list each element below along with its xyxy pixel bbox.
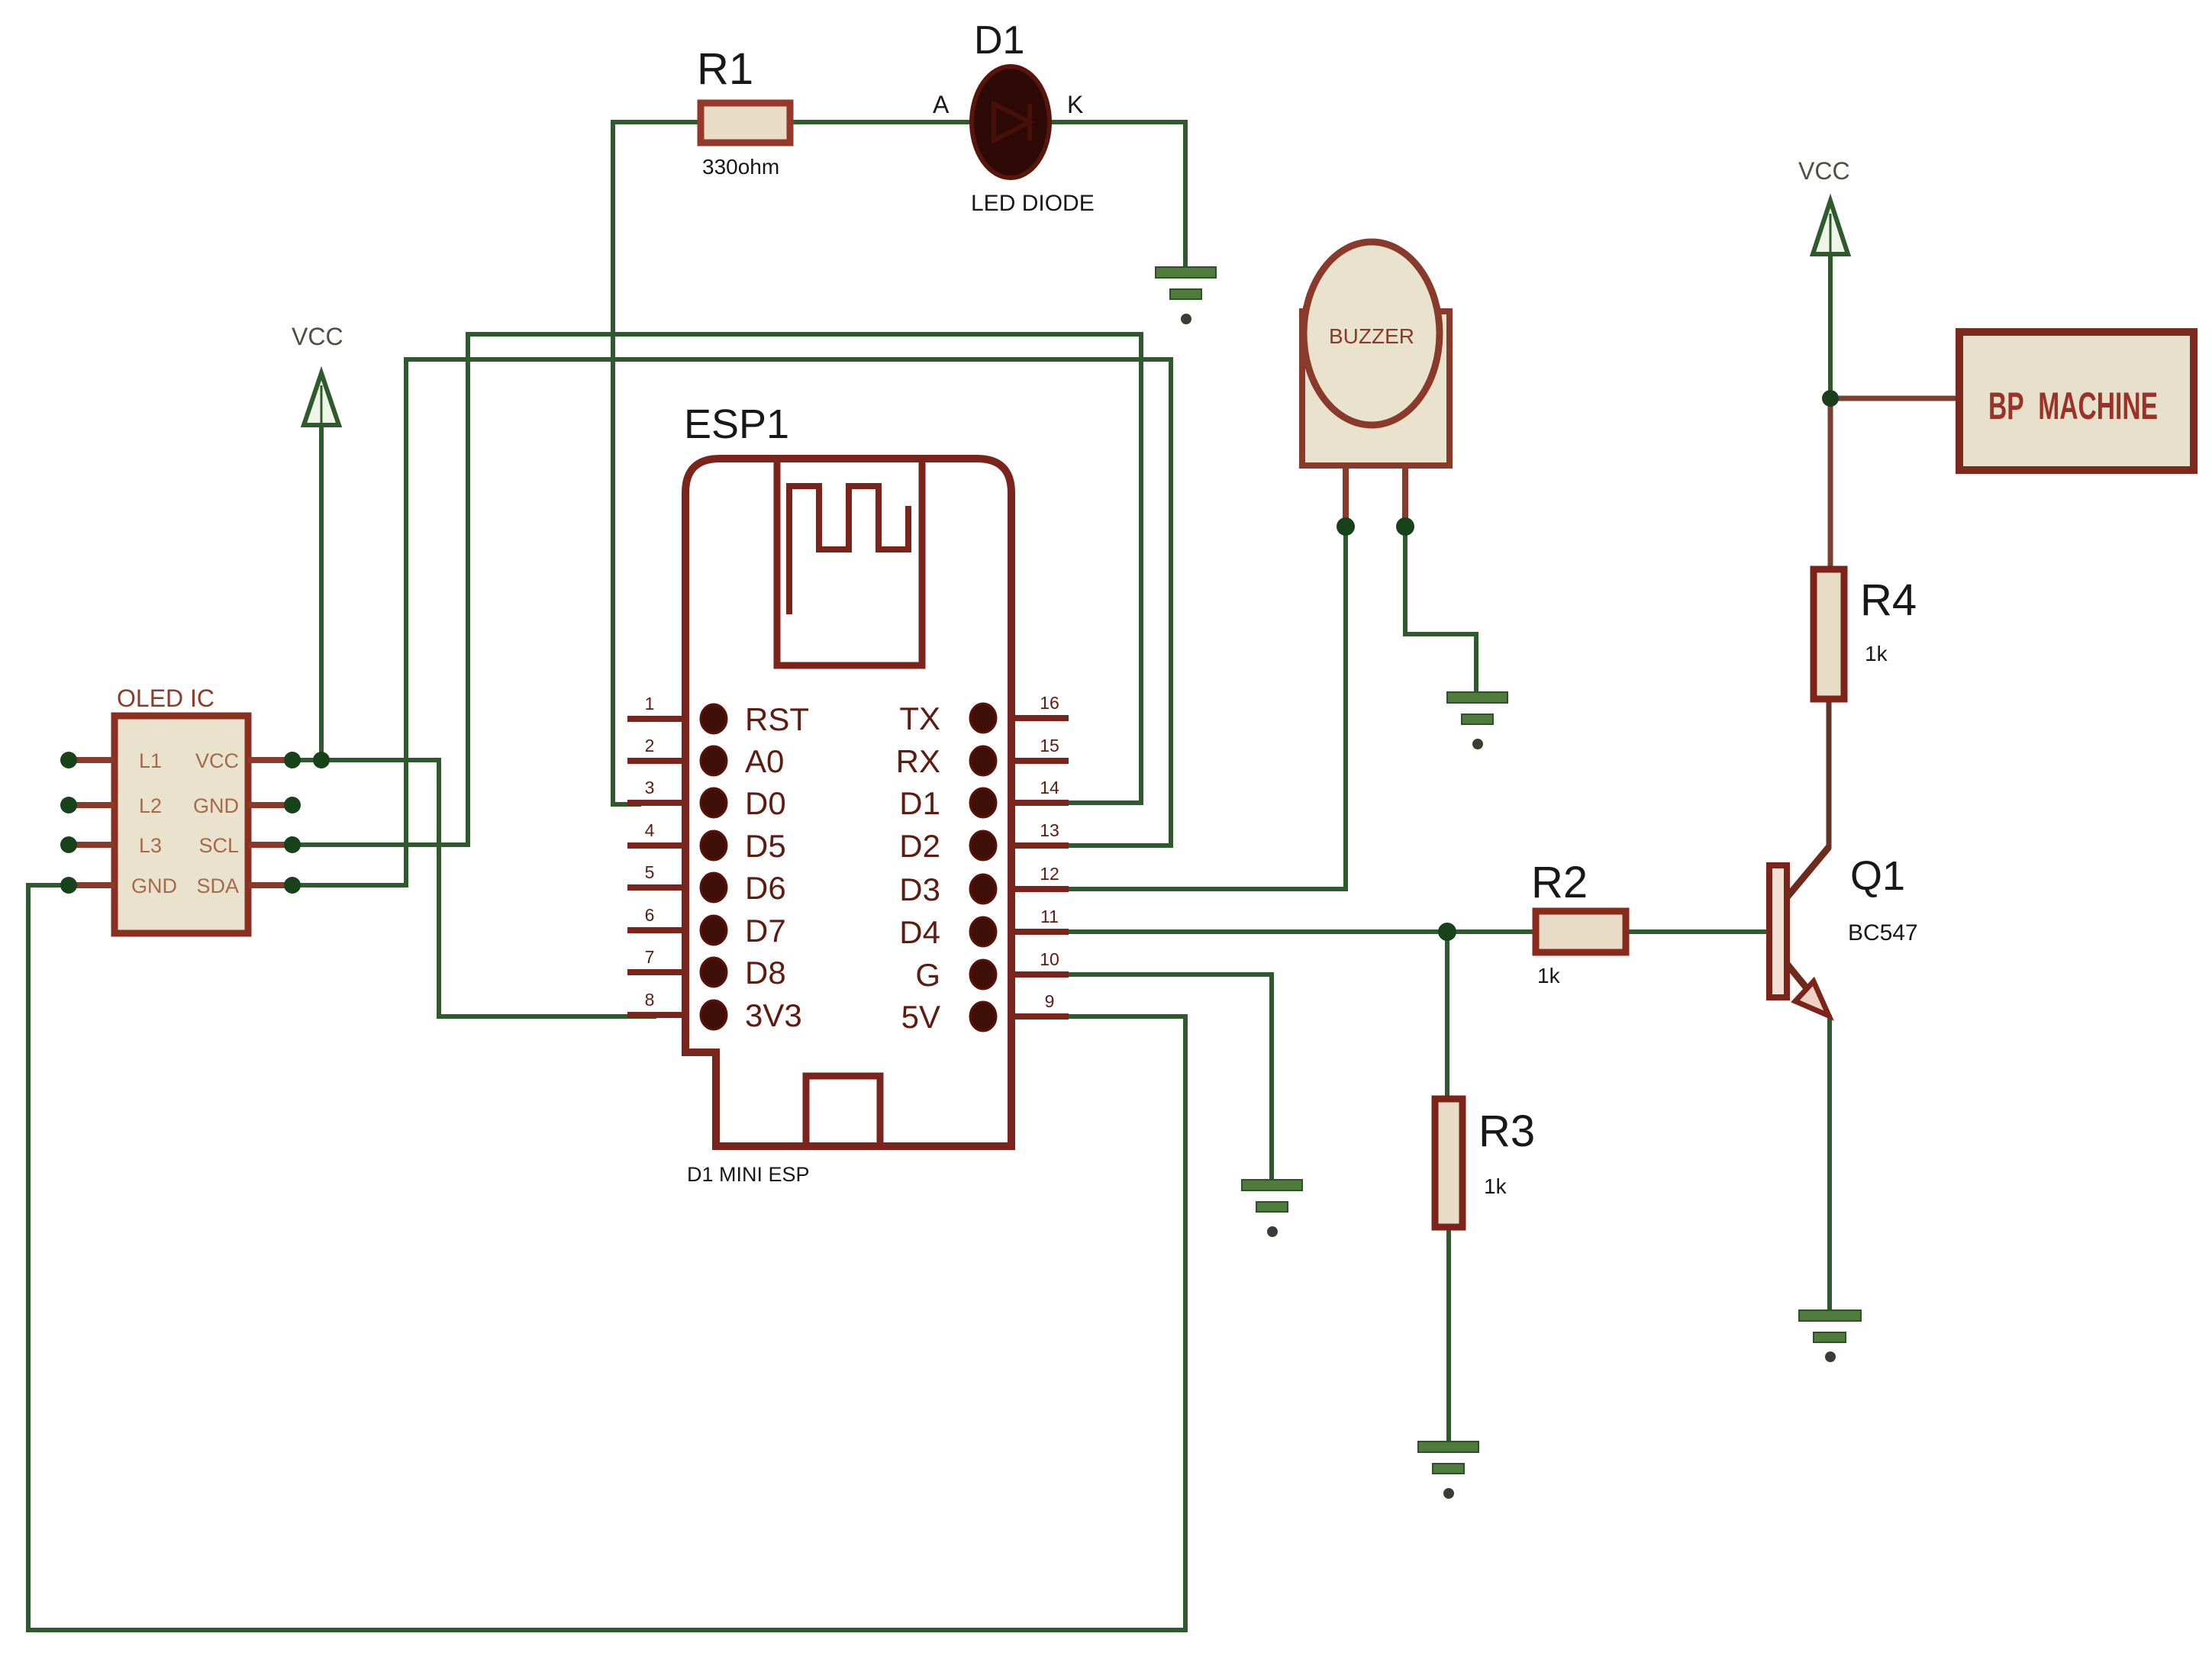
svg-text:4: 4 xyxy=(645,820,655,840)
wire VCC junction to BP MACHINE (brown) xyxy=(1830,396,1962,401)
wire R1 to LED anode xyxy=(790,120,974,124)
svg-text:D4: D4 xyxy=(899,914,940,950)
wire net D0 to R1 xyxy=(613,122,701,804)
wire VCC arrow stem xyxy=(319,424,324,760)
resistor R1 xyxy=(697,44,790,179)
svg-text:RST: RST xyxy=(745,701,809,737)
pin numbers 1-8 and 16-9 xyxy=(645,693,1059,1011)
svg-text:SDA: SDA xyxy=(196,875,239,897)
svg-text:5V: 5V xyxy=(901,999,940,1035)
transistor Q1 xyxy=(1769,847,1918,1016)
svg-text:A0: A0 xyxy=(745,743,784,779)
notch bottom xyxy=(806,1076,880,1146)
svg-text:D0: D0 xyxy=(745,785,786,821)
wire buzzer right pin to ground xyxy=(1405,488,1476,694)
junction dot VCC node xyxy=(313,752,330,768)
junction dot buzzer left pin xyxy=(1337,517,1355,536)
pin stubs left xyxy=(627,718,1069,1016)
svg-text:OLED IC: OLED IC xyxy=(117,685,214,712)
svg-text:BUZZER: BUZZER xyxy=(1329,324,1414,348)
resistor R2 xyxy=(1531,858,1626,987)
antenna box xyxy=(777,459,922,665)
svg-text:1k: 1k xyxy=(1865,642,1888,665)
svg-text:16: 16 xyxy=(1040,693,1059,713)
ESP1 module xyxy=(627,401,1069,1186)
svg-text:L3: L3 xyxy=(139,834,162,857)
junction dot buzzer right pin xyxy=(1396,517,1414,536)
svg-text:L1: L1 xyxy=(139,749,162,772)
buzzer BZ1 xyxy=(1302,242,1449,525)
junction dot D4/R2/R3 node xyxy=(1438,923,1456,941)
svg-text:GND: GND xyxy=(193,794,239,817)
svg-text:D2: D2 xyxy=(899,828,940,864)
wire R3 to ground xyxy=(1446,1227,1451,1443)
wire R4 to Q1 collector (dark red) xyxy=(1827,699,1832,849)
svg-text:Q1: Q1 xyxy=(1850,853,1905,899)
resistor R4 xyxy=(1814,569,1917,699)
wire VCC junction down to R4 (brown) xyxy=(1828,398,1833,569)
pin name labels xyxy=(745,701,940,1035)
svg-text:7: 7 xyxy=(645,947,655,967)
ground (buzzer) xyxy=(1447,692,1507,749)
svg-text:5: 5 xyxy=(645,862,655,882)
svg-text:D8: D8 xyxy=(745,955,786,991)
svg-text:R3: R3 xyxy=(1478,1107,1535,1156)
svg-text:D1: D1 xyxy=(974,18,1024,63)
svg-text:D1: D1 xyxy=(899,785,940,821)
wire R2 to Q1 base xyxy=(1626,929,1771,934)
pin circles xyxy=(701,704,996,1031)
svg-text:SCL: SCL xyxy=(198,834,239,857)
junction dots OLED pins xyxy=(60,752,301,894)
wire net D3 to buzzer left pin xyxy=(1061,488,1346,889)
BP MACHINE block xyxy=(1959,332,2194,470)
svg-text:RX: RX xyxy=(896,743,940,779)
svg-text:9: 9 xyxy=(1045,991,1055,1011)
svg-text:VCC: VCC xyxy=(292,323,343,350)
wire VCC2 arrow stem xyxy=(1828,254,1833,398)
svg-text:330ohm: 330ohm xyxy=(702,155,779,179)
wire net SCL: OLED SCL to ESP D1 xyxy=(292,334,1141,845)
svg-text:GND: GND xyxy=(131,875,177,897)
svg-text:D6: D6 xyxy=(745,870,786,906)
antenna meander xyxy=(789,486,908,614)
power VCC (left) xyxy=(292,323,343,425)
svg-text:10: 10 xyxy=(1040,949,1059,969)
svg-text:D5: D5 xyxy=(745,828,786,864)
svg-text:A: A xyxy=(933,91,950,118)
svg-text:G: G xyxy=(915,957,940,993)
ground (ESP G pin) xyxy=(1242,1180,1302,1237)
svg-text:L2: L2 xyxy=(139,794,162,817)
svg-text:D3: D3 xyxy=(899,871,940,907)
wire net D4 to R2 xyxy=(1061,929,1536,934)
svg-text:11: 11 xyxy=(1040,907,1059,926)
wire net SDA: OLED SDA to ESP D2 xyxy=(292,359,1171,885)
OLED IC U1 xyxy=(67,685,295,933)
svg-text:ESP1: ESP1 xyxy=(684,401,789,447)
wire net VCC: OLED VCC to ESP 3V3 xyxy=(292,760,656,1016)
wire LED cathode to ground xyxy=(1047,122,1185,269)
svg-text:2: 2 xyxy=(645,736,655,755)
svg-text:12: 12 xyxy=(1040,864,1059,884)
resistor R3 xyxy=(1435,1099,1535,1227)
wire Q1 emitter to ground xyxy=(1827,1015,1832,1312)
svg-text:BC547: BC547 xyxy=(1848,920,1918,945)
svg-text:1: 1 xyxy=(645,694,655,714)
LED D1 xyxy=(933,18,1095,216)
wire net G to ground xyxy=(1061,974,1272,1181)
svg-text:15: 15 xyxy=(1040,736,1059,755)
svg-text:3V3: 3V3 xyxy=(745,997,802,1033)
svg-text:8: 8 xyxy=(645,990,655,1010)
wire D4 junction down to R3 xyxy=(1445,932,1449,1099)
svg-text:R4: R4 xyxy=(1860,575,1917,625)
svg-text:K: K xyxy=(1067,91,1083,118)
power VCC (right) xyxy=(1798,157,1850,254)
svg-text:1k: 1k xyxy=(1484,1174,1507,1198)
ground (LED D1 cathode) xyxy=(1156,267,1216,324)
ground (Q1 emitter) xyxy=(1799,1310,1861,1362)
svg-text:TX: TX xyxy=(899,701,940,736)
svg-text:LED DIODE: LED DIODE xyxy=(971,191,1095,216)
svg-text:6: 6 xyxy=(645,905,655,925)
svg-text:VCC: VCC xyxy=(195,749,239,772)
ground (R3) xyxy=(1418,1442,1478,1499)
wire net 5V to OLED GND (bottom loop) xyxy=(28,885,1185,1630)
svg-text:3: 3 xyxy=(645,778,655,797)
svg-text:13: 13 xyxy=(1040,820,1059,840)
svg-text:R1: R1 xyxy=(697,44,753,94)
svg-text:14: 14 xyxy=(1040,778,1059,797)
svg-text:VCC: VCC xyxy=(1798,157,1850,185)
svg-text:D7: D7 xyxy=(745,913,786,949)
junction dot BP node xyxy=(1822,390,1839,407)
svg-text:D1 MINI ESP: D1 MINI ESP xyxy=(687,1163,810,1186)
svg-text:R2: R2 xyxy=(1531,858,1588,907)
svg-text:BP MACHINE: BP MACHINE xyxy=(1988,385,2158,427)
svg-text:1k: 1k xyxy=(1537,964,1561,987)
